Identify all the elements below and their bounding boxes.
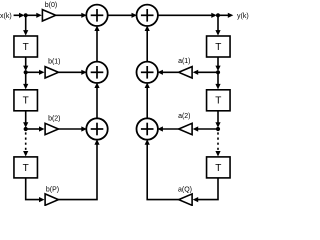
svg-text:b(0): b(0) [45,2,57,9]
wire adder A2 to output junction [158,13,217,18]
wire a(1) to adder A4 [157,70,178,75]
junction node C1 [216,70,220,74]
adder A1 [86,5,107,26]
delay element T1 (T) [14,36,38,57]
wire b(2) to adder A5 [58,126,86,131]
svg-text:x(k): x(k) [0,13,12,20]
svg-text:a(Q): a(Q) [178,187,192,194]
junction node C2 [216,127,220,131]
wire b(1) to adder A3 [58,70,86,75]
junction node B1 [24,70,28,74]
gain b0 [42,2,57,21]
wire T3 to junction node C1 [215,57,220,71]
gain b1 [45,59,60,79]
wire a(Q) left and up to adder A6 [145,139,179,199]
dashed wire junction B2 down to delay TP [23,132,28,156]
delay element T3 (T) [207,36,231,57]
svg-text:T: T [23,163,29,174]
delay element T4 (T) [207,90,231,111]
wire a(2) to adder A6 [157,126,178,131]
wire adder A1 to adder A2 [108,13,137,18]
wire T2 to junction node B2 [23,111,28,128]
wire adder A3 up to adder A1 [94,26,99,62]
svg-text:T: T [215,163,221,174]
svg-text:b(2): b(2) [48,115,60,122]
delay element TQ (T) [207,157,231,178]
gain bP [45,187,59,206]
dashed wire junction C2 down to delay TQ [215,132,220,156]
svg-text:T: T [215,96,221,107]
junction node B2 [24,127,28,131]
wire T4 to junction node C2 [215,111,220,128]
wire junction to b(0) [26,13,42,18]
svg-text:b(1): b(1) [48,59,60,66]
wire T1 to junction node B1 [23,57,28,71]
wire junction C2 to a(2) [193,126,218,131]
wire b(0) to adder A1 [56,13,87,18]
adder A3 [86,62,107,83]
adder A6 [137,118,158,139]
wire input junction down to delay T1 [23,15,28,35]
svg-text:T: T [215,42,221,53]
delay element T2 (T) [14,90,38,111]
wire junction to y(k) [218,13,233,18]
svg-text:y(k): y(k) [237,13,249,20]
gain a1 [178,58,192,78]
svg-text:b(P): b(P) [46,187,59,194]
adder A5 [86,118,107,139]
wire TQ down and left to a(Q) [193,178,218,202]
wire output junction down to delay T3 [215,15,220,35]
svg-text:a(2): a(2) [178,113,190,120]
wire junction C1 down to delay T4 [215,72,220,89]
wire junction C1 to a(1) [193,70,218,75]
adder A2 [137,5,158,26]
adder A4 [137,62,158,83]
delay element TP (T) [14,157,38,178]
wire adder A4 up to adder A2 [145,26,150,62]
wire adder A5 up to adder A3 [94,83,99,119]
gain aQ [178,187,192,206]
gain b2 [45,115,60,134]
gain a2 [178,113,192,135]
svg-text:T: T [23,96,29,107]
junction output node [216,13,220,17]
wire junction B1 to b(1) [26,70,45,75]
wire junction B1 down to delay T2 [23,72,28,89]
wire b(P) right and up to adder A5 [58,139,99,199]
wire adder A6 up to adder A4 [145,83,150,119]
junction input node [24,13,28,17]
wire TP down and right to b(P) [26,178,45,202]
svg-text:T: T [23,42,29,53]
svg-text:a(1): a(1) [178,58,190,65]
wire junction B2 to b(2) [26,126,45,131]
wire x(k) to input junction [14,13,25,18]
